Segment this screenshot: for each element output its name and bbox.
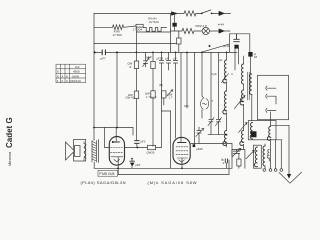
arrow variable core <box>246 150 254 158</box>
inductor Q3 <box>240 131 244 146</box>
svg-text:1.7: 1.7 <box>169 96 173 100</box>
wire tube1 plate stem <box>115 138 117 142</box>
wire top rail <box>94 13 172 15</box>
wire <box>209 30 219 32</box>
wire vertical x=202 <box>202 52 204 98</box>
wire cross link y=125.3 <box>271 112 290 127</box>
resistor ATM 17500 <box>113 25 124 30</box>
svg-text:µF9: µF9 <box>147 55 152 59</box>
inductor Q2 <box>240 90 243 105</box>
wire main distribution rail y=52.4 <box>94 51 237 53</box>
svg-text:18: 18 <box>254 55 258 59</box>
svg-text:1: 1 <box>57 79 59 83</box>
wire lower parallel <box>136 27 182 32</box>
svg-text:# 44: # 44 <box>218 23 224 27</box>
capacitor uF5 electrolytic <box>130 159 135 162</box>
arrow trim Q3 <box>239 123 248 133</box>
wire vertical x=170.5 mains feed <box>170 14 172 30</box>
junction black square uF05 <box>193 144 196 147</box>
transformer output winding <box>92 141 96 163</box>
resistor box horizontal 0W19 <box>147 145 155 149</box>
wire tube2 cathode <box>181 158 183 168</box>
wire tube2 plate stem <box>180 137 182 142</box>
speaker <box>75 146 81 157</box>
resistor heater dropper <box>182 28 194 33</box>
inductor box left <box>250 123 252 140</box>
wire vertical x=187 <box>186 52 188 108</box>
wire <box>196 12 201 14</box>
inductor P1 <box>223 60 227 83</box>
wire jog to pot feed <box>162 111 171 168</box>
svg-text:3: 3 <box>66 79 68 83</box>
capacitor uF2 grid <box>135 141 140 144</box>
svg-text:UKW: UKW <box>72 74 79 78</box>
svg-text:x: x <box>66 74 68 78</box>
svg-text:040: 040 <box>184 104 189 108</box>
plug prong bottom <box>219 29 225 33</box>
tube V2 UCH81 <box>173 137 190 164</box>
wire tube1 side line y=147.5 <box>125 147 148 149</box>
wire <box>124 26 136 27</box>
svg-text:17 500: 17 500 <box>113 33 123 37</box>
svg-text:(M): (M) <box>159 83 163 87</box>
capacitor x=168.5 <box>166 52 170 70</box>
inductor box right <box>267 127 270 141</box>
arrow trim Q2 <box>235 96 246 109</box>
capacitor variable x=145.5 <box>143 52 147 67</box>
wire to resistor <box>178 13 185 15</box>
svg-text:Ant: Ant <box>75 65 80 69</box>
wire second rail <box>94 26 113 28</box>
wire heater line A <box>118 144 232 169</box>
tube V1 PL84 <box>109 137 124 166</box>
wire switch diagonal to rect corner <box>201 44 229 52</box>
svg-text:4: 4 <box>223 161 225 165</box>
svg-text:µF: µF <box>219 58 223 62</box>
svg-text:2V 52A: 2V 52A <box>149 20 159 24</box>
resistor box x=153 lower <box>151 91 155 98</box>
wire vertical x=117 <box>116 52 118 127</box>
svg-text:P'M8 VU8: P'M8 VU8 <box>99 172 114 176</box>
resistor box x=153 <box>152 52 154 61</box>
resistor box <box>238 154 240 160</box>
svg-text:4: 4 <box>231 72 233 76</box>
inductor osc tickler <box>267 149 269 158</box>
capacitor trimmer <box>233 150 239 154</box>
svg-text:220/110: 220/110 <box>70 79 81 83</box>
contact 2 <box>266 94 267 98</box>
junction dots rail <box>94 51 228 53</box>
transformer core line <box>98 140 100 163</box>
magic eye bracket <box>201 99 204 110</box>
svg-text:Iℓ µF: Iℓ µF <box>211 72 217 76</box>
wire left frame vertical <box>93 14 95 141</box>
svg-text:µF: µF <box>166 56 170 60</box>
arrow trim P1 <box>222 74 229 83</box>
resistor box x=136.5 lower <box>134 91 138 99</box>
coil box <box>253 145 261 168</box>
contact 1 <box>266 86 267 90</box>
svg-text:µF19: µF19 <box>223 44 230 48</box>
inductor R1 <box>250 74 252 95</box>
wire third rail <box>94 43 177 45</box>
capacitor black blob <box>251 131 257 137</box>
wire heater line B <box>118 160 229 175</box>
speaker frame box <box>74 140 86 162</box>
svg-text:ΩW 4Ω: ΩW 4Ω <box>126 96 135 100</box>
plug prong top <box>219 11 225 15</box>
contact 3 <box>266 108 267 112</box>
wire tube1 cathode down <box>117 157 119 164</box>
svg-text:Cadet G: Cadet G <box>5 117 14 148</box>
wire <box>156 147 162 149</box>
inductor Q1 <box>242 64 244 84</box>
resistor mains dropper top <box>184 11 196 16</box>
wire <box>212 12 219 14</box>
svg-text:x: x <box>57 74 59 78</box>
wire verticals to terminals <box>271 139 282 169</box>
capacitor uF19 <box>234 34 240 42</box>
svg-text:Minerva: Minerva <box>7 151 12 166</box>
svg-text:µF04: µF04 <box>157 56 164 60</box>
inductor P2 <box>223 91 227 114</box>
svg-text:x: x <box>57 70 59 74</box>
ground antenna arrow <box>288 125 290 174</box>
svg-text:x: x <box>62 74 64 78</box>
svg-text:µF: µF <box>174 56 178 60</box>
svg-text:µF05: µF05 <box>196 147 203 151</box>
wire trimmer rail <box>208 134 227 136</box>
capacitor x=161.5 <box>159 52 163 111</box>
wire stubs down <box>234 49 236 70</box>
svg-text:µF5: µF5 <box>135 163 140 167</box>
svg-text:ΩW19: ΩW19 <box>147 151 155 155</box>
capacitor trimmer above tube2 <box>197 127 201 144</box>
potentiometer arrow 1kW <box>167 90 173 96</box>
svg-text:VWZ 4 P: VWZ 4 P <box>195 24 207 28</box>
svg-text:µF7: µF7 <box>101 57 107 61</box>
heater element U-dips <box>143 28 166 32</box>
capacitor series uF7 <box>102 50 105 55</box>
inductor osc secondary <box>263 146 265 166</box>
wire stem into tube1 <box>132 128 134 136</box>
trimmer caps pair x=211,218.5 <box>209 52 213 134</box>
resistor voice coil zigzag <box>84 144 86 159</box>
resistor box x=163.8 lower <box>162 91 166 98</box>
terminal circles <box>263 169 283 172</box>
core lines Q/R <box>247 72 249 100</box>
resistor box R x=136.5 <box>136 32 138 61</box>
lamp dial VWZ 4P <box>202 27 209 34</box>
wire <box>194 30 202 32</box>
wire speaker bottom to heater line <box>94 140 118 168</box>
svg-text:(M)k SAGA/08 S8W: (M)k SAGA/08 S8W <box>148 180 198 185</box>
connector AMP arrow <box>172 12 178 16</box>
capacitor 0u4 <box>225 159 227 163</box>
svg-text:(PL84) SAGA/D8L3N: (PL84) SAGA/D8L3N <box>81 180 126 185</box>
capacitor line cap on vertical x=174.6 <box>174 14 176 32</box>
resistor box 17 004 <box>136 24 143 27</box>
svg-text:2: 2 <box>61 79 63 83</box>
svg-text:µF2: µF2 <box>141 140 146 144</box>
capacitor x=175.5 <box>173 52 177 138</box>
inductor P3 <box>223 131 227 146</box>
resistor box vertical x=178.8 <box>178 31 180 38</box>
inductor osc primary <box>254 147 257 167</box>
component black square fuse <box>248 52 252 57</box>
wire tube1 grid stub left <box>104 128 109 148</box>
svg-text:Ic: Ic <box>211 99 214 103</box>
selector table <box>56 64 86 83</box>
wire tube2 side line <box>191 143 232 145</box>
svg-text:4500: 4500 <box>73 70 80 74</box>
svg-text:17 0Ω4: 17 0Ω4 <box>133 28 143 32</box>
switch mains <box>201 13 203 15</box>
svg-text:4 µ 0: 4 µ 0 <box>150 95 157 99</box>
wire grid line y=127.5 <box>94 127 133 129</box>
tube V1 label box <box>98 170 118 176</box>
wire rect top <box>229 34 249 53</box>
